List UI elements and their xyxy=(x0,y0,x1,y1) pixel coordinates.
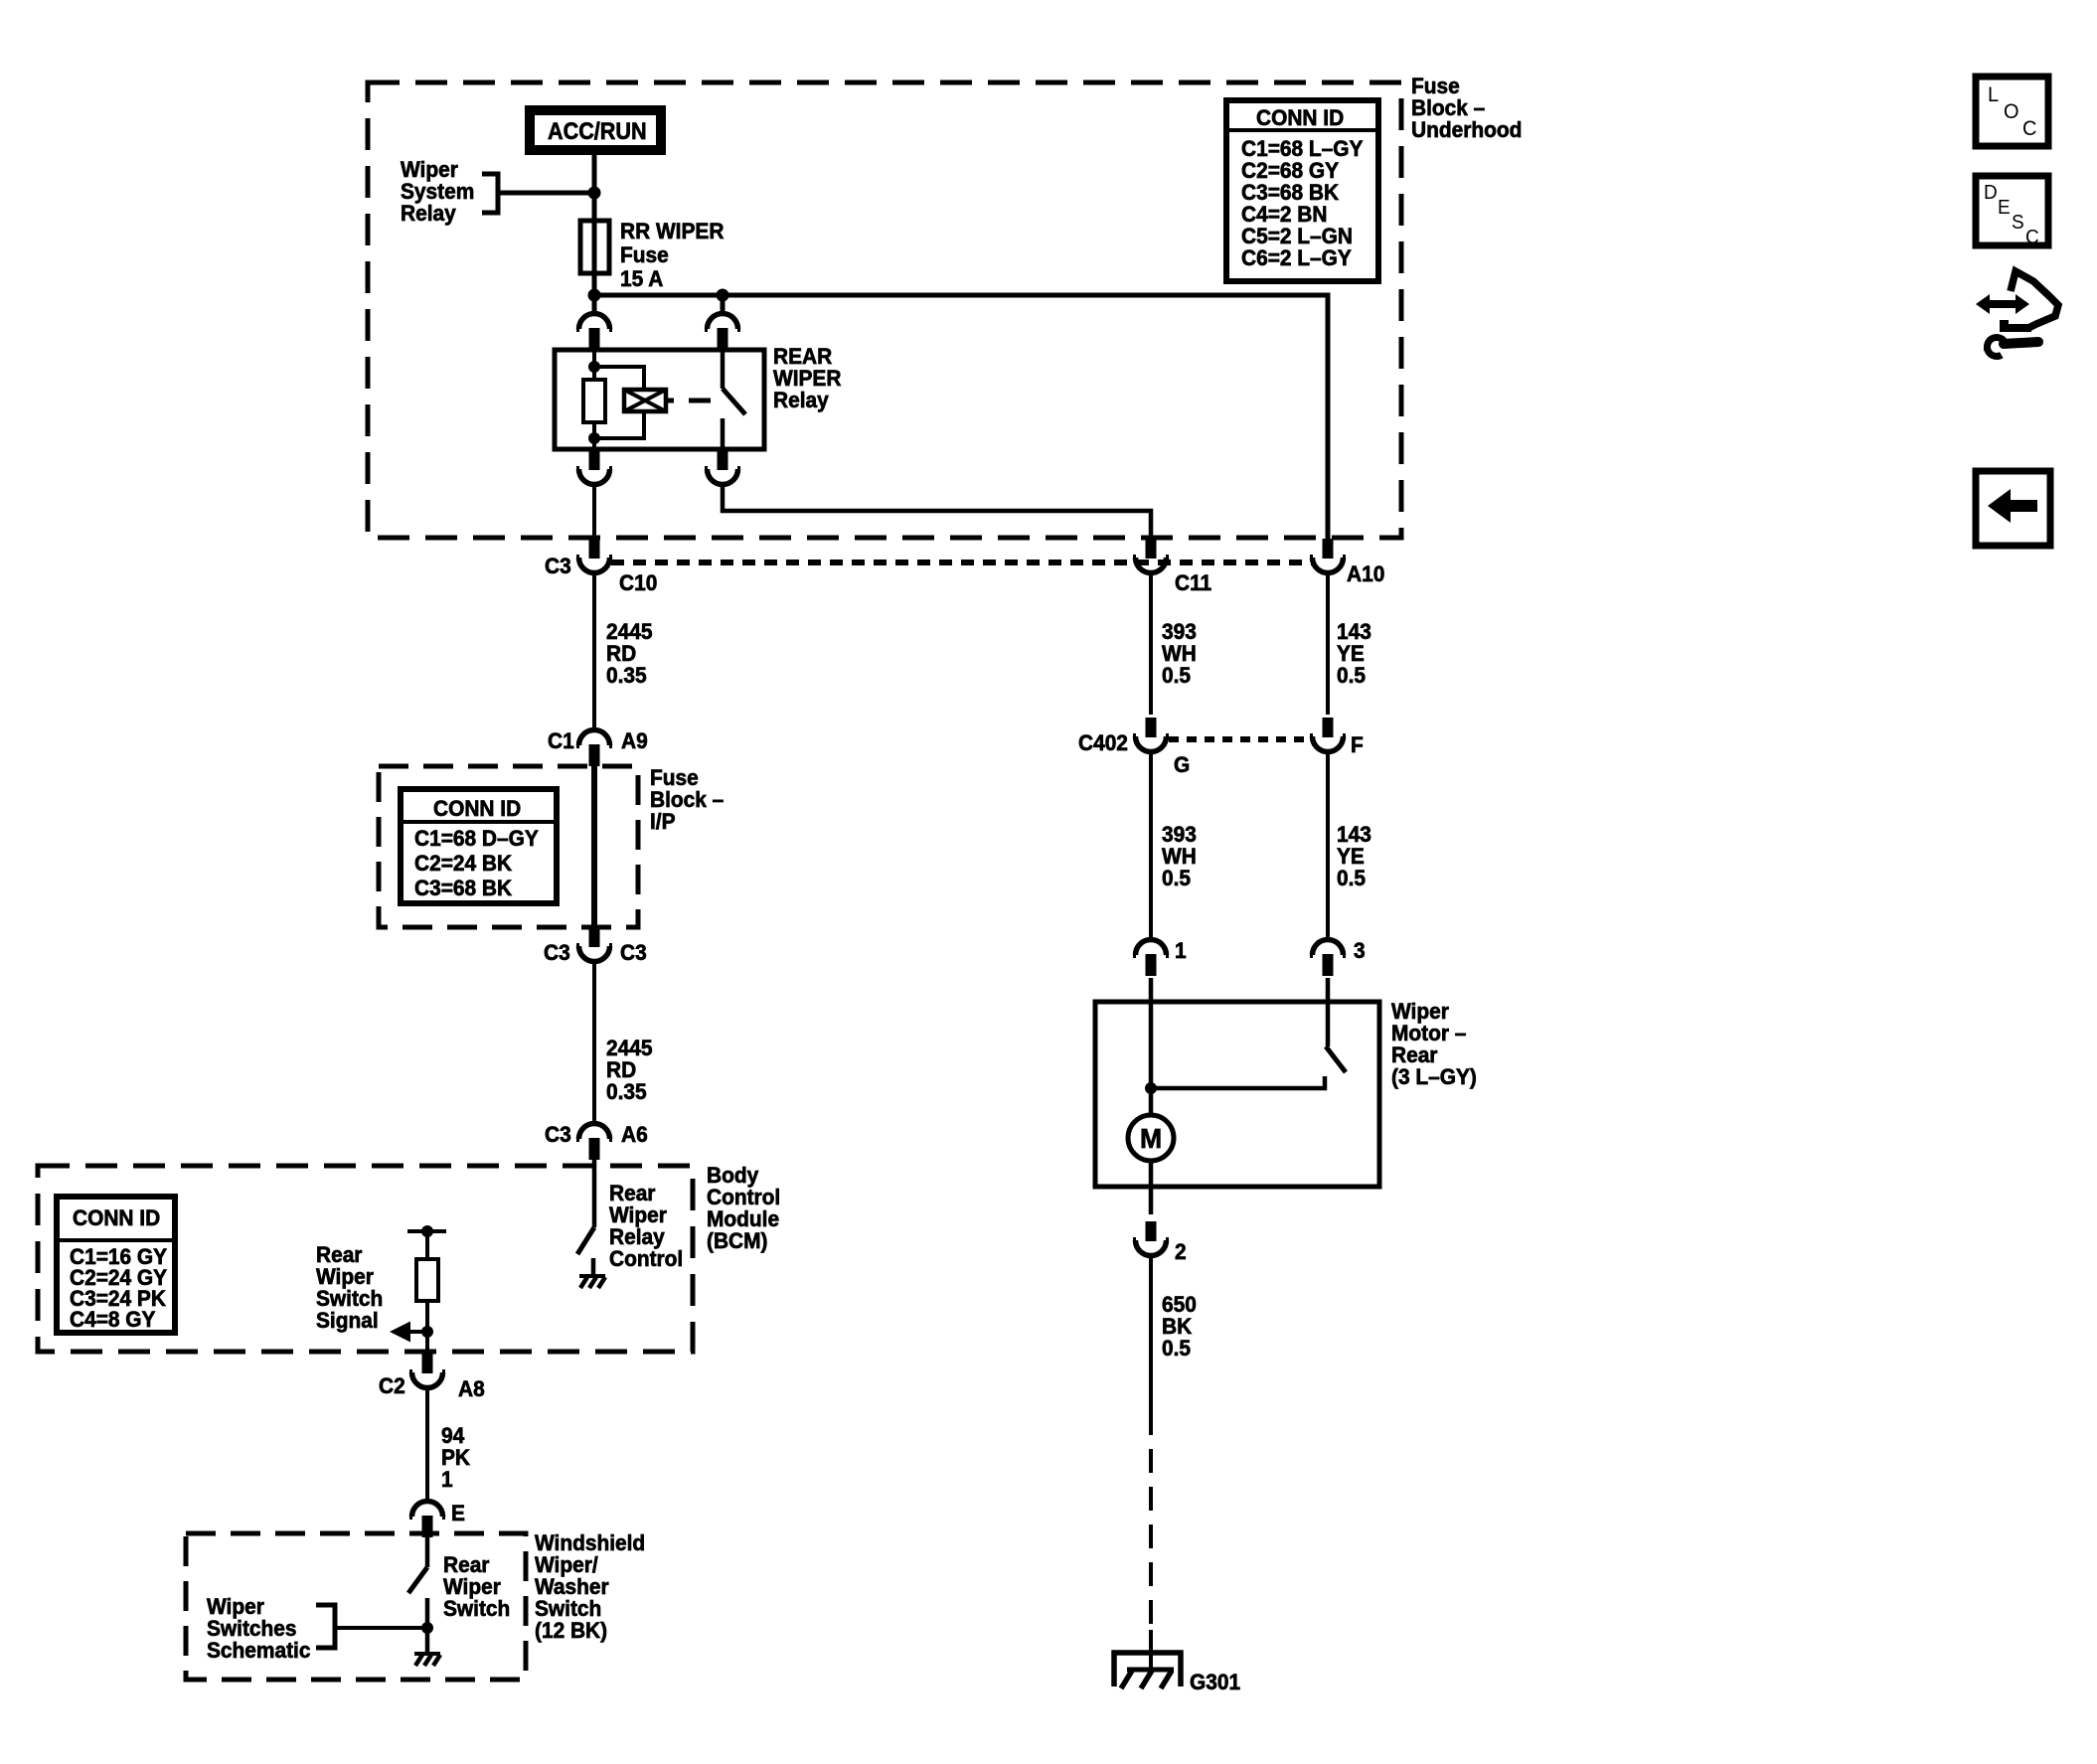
svg-text:Windshield: Windshield xyxy=(535,1531,645,1556)
relay switch output connector xyxy=(705,450,740,485)
svg-text:C2=68 GY: C2=68 GY xyxy=(1241,159,1339,184)
fuse block I/P dashed box xyxy=(379,766,638,927)
svg-text:G: G xyxy=(1174,753,1190,778)
motor pin3 wire xyxy=(1326,978,1331,1046)
svg-text:I/P: I/P xyxy=(650,810,676,835)
svg-text:C3: C3 xyxy=(620,941,647,966)
svg-text:15 A: 15 A xyxy=(620,267,663,292)
connector C402:G xyxy=(1133,718,1169,752)
svg-text:Fuse: Fuse xyxy=(1411,75,1460,99)
DESC icon box xyxy=(1976,176,2048,248)
svg-text:RR WIPER: RR WIPER xyxy=(620,220,725,244)
svg-text:3: 3 xyxy=(1354,939,1366,964)
junction node relay switch feed xyxy=(717,289,729,302)
connector A10 xyxy=(1310,539,1346,573)
svg-text:Schematic: Schematic xyxy=(207,1639,311,1664)
relay switch contact xyxy=(721,418,726,449)
svg-text:C4=8 GY: C4=8 GY xyxy=(70,1308,155,1333)
signal wire to resistor xyxy=(425,1231,429,1259)
wire 2445 RD lower xyxy=(592,961,596,1124)
svg-text:C1=68 D–GY: C1=68 D–GY xyxy=(414,827,539,852)
relay coil feed wire xyxy=(592,350,596,380)
wire junction to relay switch pin xyxy=(721,295,726,314)
svg-text:94: 94 xyxy=(441,1424,464,1449)
svg-text:1: 1 xyxy=(441,1468,453,1493)
svg-text:Signal: Signal xyxy=(316,1309,379,1334)
wire 650 BK dashed continuation xyxy=(1149,1411,1153,1634)
connector C3:A6 xyxy=(576,1124,612,1161)
relay coil box with X xyxy=(624,390,666,411)
svg-text:143: 143 xyxy=(1337,620,1371,645)
wire from ACC/RUN to fuse xyxy=(592,155,597,221)
svg-text:Underhood: Underhood xyxy=(1411,118,1522,143)
svg-text:RD: RD xyxy=(606,1058,636,1083)
rear wiper relay box xyxy=(555,350,764,449)
motor output wire xyxy=(1149,1161,1154,1214)
adjust hand icon xyxy=(1976,271,2058,357)
svg-text:C2: C2 xyxy=(379,1374,405,1399)
svg-text:C402: C402 xyxy=(1078,731,1128,756)
svg-text:2: 2 xyxy=(1175,1240,1187,1265)
svg-text:CONN ID: CONN ID xyxy=(433,797,521,822)
rear wiper relay label xyxy=(773,345,842,413)
svg-text:C6=2 L–GY: C6=2 L–GY xyxy=(1241,246,1352,271)
wire 94 PK xyxy=(425,1387,429,1502)
motor M circle xyxy=(1128,1115,1174,1161)
svg-text:0.35: 0.35 xyxy=(606,1080,647,1105)
relay coil top junction xyxy=(588,361,600,373)
fuse RR WIPER 15A xyxy=(580,221,609,273)
svg-text:Relay: Relay xyxy=(609,1225,665,1250)
svg-text:0.5: 0.5 xyxy=(1162,867,1191,891)
signal direction arrow xyxy=(390,1322,410,1343)
motor pin1 wire xyxy=(1149,978,1154,1115)
svg-text:Wiper: Wiper xyxy=(316,1265,374,1290)
svg-text:C3=68 BK: C3=68 BK xyxy=(414,877,513,901)
BCM driver contact xyxy=(591,1258,596,1274)
svg-text:S: S xyxy=(2012,212,2024,235)
BCM label xyxy=(707,1164,780,1254)
relay coil bottom wire xyxy=(592,422,596,449)
relay resistor xyxy=(583,380,605,422)
bus wire to A10 drop xyxy=(594,295,1328,541)
svg-text:BK: BK xyxy=(1162,1315,1193,1340)
relay switch pin wire xyxy=(721,350,726,389)
svg-text:WIPER: WIPER xyxy=(773,367,842,392)
svg-text:System: System xyxy=(401,180,474,205)
svg-text:Control: Control xyxy=(609,1247,683,1272)
connector C3:C10 xyxy=(576,539,612,573)
svg-text:C4=2 BN: C4=2 BN xyxy=(1241,203,1327,228)
junction node below fuse xyxy=(588,289,601,302)
svg-text:ACC/RUN: ACC/RUN xyxy=(548,117,647,144)
wiper switches schematic bracket xyxy=(316,1605,335,1648)
rear wiper switch blade xyxy=(408,1567,427,1593)
svg-text:393: 393 xyxy=(1162,620,1197,645)
LOC icon box xyxy=(1976,77,2048,146)
relay switch blade xyxy=(723,389,745,414)
relay actuator dashed link xyxy=(666,399,723,403)
wire 393 WH upper xyxy=(1149,573,1153,715)
svg-text:C3: C3 xyxy=(545,555,571,579)
wire label 143 YE 0.5 lower xyxy=(1337,823,1371,891)
svg-text:Wiper: Wiper xyxy=(443,1575,501,1600)
svg-text:Wiper: Wiper xyxy=(401,158,458,183)
rear wiper switch wire xyxy=(425,1537,430,1567)
svg-text:650: 650 xyxy=(1162,1293,1197,1318)
svg-text:C2=24 BK: C2=24 BK xyxy=(414,852,513,877)
fuse label xyxy=(620,220,725,292)
svg-text:YE: YE xyxy=(1337,642,1365,667)
svg-text:Control: Control xyxy=(707,1186,780,1210)
svg-text:0.35: 0.35 xyxy=(606,664,647,689)
connector C11 xyxy=(1133,539,1169,573)
svg-text:Switch: Switch xyxy=(443,1597,510,1622)
BCM pullup resistor xyxy=(416,1259,438,1301)
svg-text:(BCM): (BCM) xyxy=(707,1229,767,1254)
connector E xyxy=(409,1502,445,1538)
svg-text:0.5: 0.5 xyxy=(1162,1337,1191,1362)
relay coil output connector xyxy=(576,450,612,485)
wire label 2445 RD 0.35 upper xyxy=(606,620,653,689)
svg-text:0.5: 0.5 xyxy=(1337,664,1366,689)
motor park switch blade xyxy=(1326,1046,1346,1072)
wire 393 WH lower xyxy=(1149,752,1153,940)
fuse block underhood dashed box xyxy=(368,82,1401,538)
BCM driver wire xyxy=(592,1157,597,1227)
wiper system relay bracket xyxy=(482,174,498,213)
svg-text:YE: YE xyxy=(1337,845,1365,870)
conn id box BCM xyxy=(57,1197,175,1333)
wiper motor rear box xyxy=(1095,1002,1379,1187)
signal arrow junction xyxy=(421,1326,433,1338)
svg-text:(12 BK): (12 BK) xyxy=(535,1619,607,1644)
wiper switches schematic label xyxy=(207,1595,311,1664)
connector C3:C3 xyxy=(576,927,612,962)
svg-text:C3: C3 xyxy=(545,1123,571,1148)
connector 1 xyxy=(1133,940,1169,977)
wire label 2445 RD 0.35 lower xyxy=(606,1037,653,1105)
svg-text:393: 393 xyxy=(1162,823,1197,848)
svg-text:A9: A9 xyxy=(621,729,648,754)
svg-text:0.5: 0.5 xyxy=(1162,664,1191,689)
svg-text:Rear: Rear xyxy=(316,1243,363,1268)
wire label 143 YE 0.5 upper xyxy=(1337,620,1371,689)
svg-text:CONN ID: CONN ID xyxy=(1256,106,1344,131)
svg-text:M: M xyxy=(1140,1122,1162,1154)
svg-text:Module: Module xyxy=(707,1207,779,1232)
switch common junction xyxy=(421,1622,433,1634)
wire to ground xyxy=(1149,1630,1153,1670)
svg-text:D: D xyxy=(1984,182,1998,205)
fuse block underhood label xyxy=(1411,75,1522,143)
relay coil bottom branch xyxy=(594,411,644,438)
svg-text:Wiper/: Wiper/ xyxy=(535,1553,598,1578)
BCM driver switch blade xyxy=(577,1227,594,1254)
relay coil pin connector xyxy=(576,314,612,351)
connector C1:A9 xyxy=(576,730,612,767)
svg-text:1: 1 xyxy=(1175,939,1187,964)
ground G301 xyxy=(1114,1653,1181,1688)
svg-text:Wiper: Wiper xyxy=(1391,1000,1449,1025)
ACC/RUN power feed box xyxy=(530,110,661,150)
svg-text:G301: G301 xyxy=(1190,1671,1240,1695)
dashed link C402 to F xyxy=(1169,736,1312,742)
BCM internal ground xyxy=(579,1276,605,1288)
svg-text:Wiper: Wiper xyxy=(609,1203,667,1228)
motor internal junction xyxy=(1145,1082,1157,1094)
svg-text:Switches: Switches xyxy=(207,1617,297,1642)
wire 143 YE upper xyxy=(1326,573,1330,715)
windshield wiper washer switch label xyxy=(535,1531,645,1644)
svg-text:WH: WH xyxy=(1162,642,1197,667)
signal terminal junction xyxy=(421,1225,433,1237)
svg-text:Wiper: Wiper xyxy=(207,1595,264,1620)
relay coil top branch xyxy=(594,367,644,390)
motor park switch wire xyxy=(1151,1076,1325,1088)
wire bracket to switch xyxy=(335,1626,427,1630)
switch ground xyxy=(414,1654,440,1666)
wire label 393 WH 0.5 lower xyxy=(1162,823,1197,891)
wire from bracket to junction xyxy=(498,191,594,196)
svg-text:A10: A10 xyxy=(1347,562,1384,587)
svg-text:O: O xyxy=(2004,100,2019,124)
svg-text:CONN ID: CONN ID xyxy=(73,1206,160,1231)
svg-text:Relay: Relay xyxy=(401,202,456,227)
svg-text:0.5: 0.5 xyxy=(1337,867,1366,891)
svg-text:C5=2 L–GN: C5=2 L–GN xyxy=(1241,225,1353,249)
wire label 94 PK 1 xyxy=(441,1424,471,1493)
wire label 650 BK 0.5 xyxy=(1162,1293,1197,1362)
svg-text:E: E xyxy=(1998,197,2011,220)
svg-text:REAR: REAR xyxy=(773,345,833,370)
svg-text:Switch: Switch xyxy=(535,1597,601,1622)
svg-text:Switch: Switch xyxy=(316,1287,383,1312)
wire 143 YE lower xyxy=(1326,752,1330,940)
windshield wiper washer switch dashed box xyxy=(186,1533,526,1680)
rear wiper relay control label xyxy=(609,1182,683,1272)
svg-text:Block –: Block – xyxy=(1411,96,1485,121)
dotted harness connector line xyxy=(611,560,1312,565)
svg-text:F: F xyxy=(1351,733,1364,758)
svg-text:C: C xyxy=(2025,227,2039,249)
svg-text:RD: RD xyxy=(606,642,636,667)
svg-text:Rear: Rear xyxy=(609,1182,656,1206)
svg-text:Block –: Block – xyxy=(650,788,724,813)
connector 3 xyxy=(1310,940,1346,977)
connector C2:A8 xyxy=(409,1354,445,1388)
wire fuse to bus xyxy=(592,273,597,314)
svg-text:A6: A6 xyxy=(621,1123,648,1148)
wire label 393 WH 0.5 upper xyxy=(1162,620,1197,689)
rear wiper switch label xyxy=(443,1553,510,1622)
fuse block I/P label xyxy=(650,766,724,835)
svg-text:C11: C11 xyxy=(1175,571,1211,596)
wire 650 BK xyxy=(1149,1255,1153,1411)
svg-text:A8: A8 xyxy=(458,1377,485,1402)
BCM dashed box xyxy=(38,1166,693,1352)
connector F xyxy=(1310,718,1346,752)
back arrow icon box xyxy=(1976,471,2050,546)
svg-text:C1=68 L–GY: C1=68 L–GY xyxy=(1241,137,1363,162)
rear wiper switch contact xyxy=(425,1598,430,1652)
wire through fuse block I/P xyxy=(591,764,597,925)
svg-text:C1: C1 xyxy=(548,729,574,754)
wire relay switch output to C11 drop xyxy=(723,484,1151,541)
svg-text:Washer: Washer xyxy=(535,1575,609,1600)
svg-text:143: 143 xyxy=(1337,823,1371,848)
svg-text:Rear: Rear xyxy=(1391,1043,1438,1068)
svg-text:(3 L–GY): (3 L–GY) xyxy=(1391,1065,1477,1090)
svg-text:L: L xyxy=(1988,83,1999,107)
svg-text:C3: C3 xyxy=(544,941,570,966)
svg-text:C: C xyxy=(2022,117,2036,141)
svg-text:E: E xyxy=(451,1502,465,1526)
rear wiper switch signal label xyxy=(316,1243,383,1334)
svg-text:Fuse: Fuse xyxy=(620,243,669,268)
signal wire below resistor xyxy=(425,1301,429,1352)
svg-text:PK: PK xyxy=(441,1446,471,1471)
relay coil bottom junction xyxy=(588,432,600,444)
svg-text:C3=68 BK: C3=68 BK xyxy=(1241,181,1340,206)
conn id box underhood xyxy=(1226,100,1378,281)
connector 2 xyxy=(1133,1221,1169,1256)
svg-text:2445: 2445 xyxy=(606,1037,653,1061)
svg-text:2445: 2445 xyxy=(606,620,653,645)
svg-text:C10: C10 xyxy=(619,571,657,596)
wiper system relay label xyxy=(401,158,474,227)
svg-text:Motor –: Motor – xyxy=(1391,1022,1466,1046)
svg-text:Body: Body xyxy=(707,1164,758,1189)
svg-text:Rear: Rear xyxy=(443,1553,490,1578)
wiper motor rear label xyxy=(1391,1000,1477,1090)
junction node at ACC feed xyxy=(588,187,601,200)
svg-text:WH: WH xyxy=(1162,845,1197,870)
relay switch pin connector xyxy=(705,314,740,351)
svg-text:Fuse: Fuse xyxy=(650,766,699,791)
conn id box I/P xyxy=(401,789,557,903)
wire 2445 RD upper xyxy=(592,573,596,731)
signal terminal bar xyxy=(407,1229,446,1233)
wire relay coil output down xyxy=(592,484,596,540)
svg-text:Relay: Relay xyxy=(773,389,829,413)
